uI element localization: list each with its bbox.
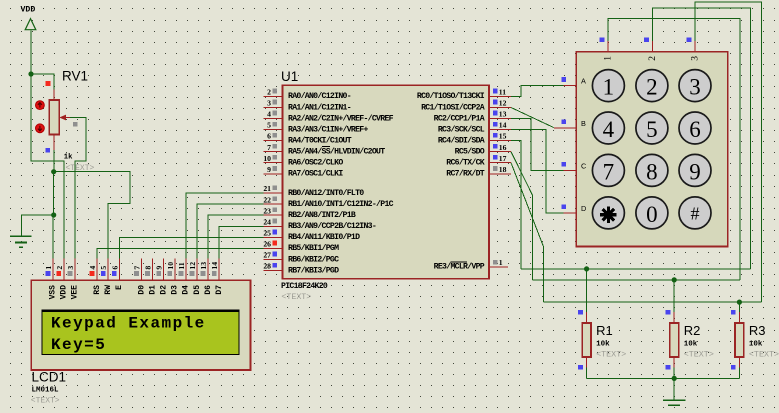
U1 pin 12 (RC1/T1OSI/CCP2A) [421, 99, 511, 113]
svg-text:VDD: VDD [60, 285, 69, 300]
svg-text:RC7/RX/DT: RC7/RX/DT [446, 169, 485, 179]
svg-text:D: D [581, 204, 586, 213]
svg-text:RB2/AN8/INT2/P1B: RB2/AN8/INT2/P1B [288, 210, 356, 220]
svg-text:26: 26 [263, 240, 271, 249]
svg-text:VDD: VDD [21, 6, 36, 15]
wire RB4 to LCD E [119, 237, 263, 258]
wire R2 top wire [673, 280, 675, 312]
junction node GND-R [672, 376, 677, 381]
svg-text:1: 1 [603, 75, 615, 100]
U1 pin 9 (RA7/OSC1/CLKI) [264, 165, 344, 179]
U1 pin 2 (RA0/AN0/C12IN0-) [264, 88, 351, 102]
ground symbol GND2 [663, 400, 685, 405]
svg-text:RE3/MCLR/VPP: RE3/MCLR/VPP [434, 262, 485, 272]
keypad column pin 1 [600, 37, 614, 60]
svg-text:1: 1 [44, 266, 53, 270]
svg-text:9: 9 [155, 266, 164, 270]
svg-text:<TEXT>: <TEXT> [66, 164, 95, 173]
svg-text:1k: 1k [64, 154, 73, 162]
svg-text:8: 8 [144, 266, 153, 270]
svg-text:22: 22 [263, 195, 271, 204]
svg-text:17: 17 [499, 154, 507, 163]
LCD1 pin 1 (VSS) [44, 259, 58, 300]
U1 pin 25 (RB4/AN11/KBI0/P1D) [263, 229, 360, 243]
wire RB1 to LCD D5 [197, 204, 264, 258]
svg-text:3: 3 [66, 266, 75, 270]
svg-text:RC4/SDI/SDA: RC4/SDI/SDA [438, 135, 485, 145]
LCD screen [42, 310, 239, 354]
U1 pin 13 (RC2/CCP1/P1A) [434, 110, 511, 124]
wire RC0 to keypad row A [511, 86, 563, 97]
svg-text:10k: 10k [596, 341, 610, 349]
wire ground node to ground symbol [22, 215, 54, 236]
overline SS on RA5 [322, 146, 330, 148]
svg-text:2: 2 [267, 88, 271, 97]
svg-text:RC2/CCP1/P1A: RC2/CCP1/P1A [434, 113, 485, 123]
LCD1 pin 3 (VEE) [66, 259, 80, 300]
wire R3 bottom wire [738, 367, 740, 378]
wire RC4 to pull-down bus 1 [511, 141, 521, 269]
wire RB0 to LCD D4 [186, 193, 264, 259]
junction node GND-A [51, 169, 56, 174]
wire RV1 wiper to LCD pin3 VEE [70, 118, 86, 259]
svg-text:10: 10 [166, 262, 175, 270]
svg-text:RV1: RV1 [62, 69, 88, 84]
svg-text:RW: RW [104, 285, 113, 295]
U1 pin 18 (RC7/RX/DT) [446, 165, 511, 179]
svg-text:RB3/AN9/CCP2B/C12IN3-: RB3/AN9/CCP2B/C12IN3- [288, 221, 376, 231]
svg-text:D2: D2 [160, 285, 169, 295]
svg-text:U1: U1 [281, 69, 298, 84]
wire keypad column 1 loop [608, 19, 740, 280]
svg-text:7: 7 [133, 266, 142, 270]
wire resistor common bus [587, 377, 740, 379]
RV1 increment button [36, 101, 45, 110]
LCD1 pin 13 (D6) [199, 259, 213, 295]
svg-text:RB1/AN10/INT1/C12IN2-/P1C: RB1/AN10/INT1/C12IN2-/P1C [288, 199, 394, 209]
U1 pin 3 (RA1/AN1/C12IN1-) [264, 99, 351, 113]
U1 pin 16 (RC5/SDO) [455, 143, 511, 157]
svg-text:9: 9 [689, 159, 701, 184]
svg-text:7: 7 [267, 143, 271, 152]
U1 pin 22 (RB1/AN10/INT1/C12IN2-/P1C) [263, 195, 393, 209]
LCD1 pin 9 (D2) [155, 259, 169, 295]
svg-text:LCD1: LCD1 [32, 370, 67, 385]
svg-text:2: 2 [648, 56, 658, 61]
svg-text:16: 16 [499, 143, 507, 152]
keypad button * [592, 197, 624, 229]
wire to ground symbol 2 [673, 378, 675, 400]
svg-text:4: 4 [88, 266, 97, 270]
svg-text:RS: RS [93, 285, 102, 295]
U1 pin 23 (RB2/AN8/INT2/P1B) [263, 206, 356, 220]
wire RC6 to pull-down bus 3 [511, 163, 544, 302]
svg-text:21: 21 [263, 184, 271, 193]
svg-text:12: 12 [499, 99, 507, 108]
U1 pin 15 (RC4/SDI/SDA) [438, 132, 511, 146]
svg-text:C: C [581, 161, 586, 170]
U1 pin 6 (RA4/T0CKI/C1OUT) [264, 132, 352, 146]
svg-text:23: 23 [263, 206, 271, 215]
LCD1 pin 11 (D4) [177, 259, 191, 295]
wire ground node to LCD pin1 VSS [52, 215, 55, 259]
junction node BUS2-R2 [672, 277, 677, 282]
keypad row pin C [561, 161, 586, 170]
svg-text:25: 25 [263, 229, 271, 238]
svg-text:5: 5 [99, 266, 108, 270]
svg-text:R2: R2 [684, 323, 701, 338]
svg-text:5: 5 [267, 121, 271, 130]
keypad column pin 2 [644, 37, 658, 60]
keypad button 2 [636, 70, 668, 102]
keypad row pin B [554, 119, 586, 128]
keypad button 0 [636, 197, 668, 229]
svg-text:4: 4 [267, 110, 271, 119]
LCD1 pin 14 (D7) [210, 259, 224, 295]
svg-text:8: 8 [646, 159, 658, 184]
svg-text:A: A [581, 77, 586, 86]
keypad button 5 [636, 112, 668, 144]
potentiometer RV1 [49, 90, 70, 151]
svg-text:13: 13 [499, 110, 507, 119]
svg-text:RA2/AN2/C2IN+/VREF-/CVREF: RA2/AN2/C2IN+/VREF-/CVREF [288, 113, 394, 123]
svg-text:1: 1 [604, 56, 614, 61]
svg-text:18: 18 [499, 165, 507, 174]
svg-text:Keypad Example: Keypad Example [51, 315, 206, 333]
svg-text:PIC18F24K20: PIC18F24K20 [281, 282, 328, 291]
U1 pin 11 (RC0/T1OSO/T13CKI) [417, 88, 511, 102]
wire VDD to LCD pin2 [31, 74, 64, 259]
LCD1 pin 12 (D5) [188, 259, 202, 295]
svg-text:<TEXT>: <TEXT> [281, 293, 311, 302]
LCD1 pin 8 (D1) [144, 259, 158, 295]
svg-text:#: # [691, 204, 700, 224]
U1 pin 21 (RB0/AN12/INT0/FLT0) [263, 184, 364, 198]
LCD1 pin 7 (D0) [133, 259, 147, 295]
junction node VDD-A [28, 71, 33, 76]
svg-text:15: 15 [499, 132, 507, 141]
svg-text:RB7/KBI3/PGD: RB7/KBI3/PGD [288, 265, 339, 275]
U1 pin 7 (RA5/AN4/SS/HLVDIN/C2OUT) [264, 143, 386, 157]
wire RB2 to LCD D6 [208, 215, 263, 258]
LCD1 pin 5 (RW) [99, 259, 113, 295]
svg-text:4: 4 [603, 117, 615, 142]
svg-text:R1: R1 [596, 323, 613, 338]
wire RB5 to LCD RS [97, 248, 263, 258]
svg-text:10k: 10k [749, 341, 763, 349]
wire keypad column 3 loop [695, 2, 762, 302]
svg-text:24: 24 [263, 217, 271, 226]
svg-text:<TEXT>: <TEXT> [749, 350, 779, 360]
svg-text:2: 2 [646, 75, 658, 100]
junction node BUS3-R3 [737, 300, 742, 305]
U1 pin 24 (RB3/AN9/CCP2B/C12IN3-) [263, 217, 376, 231]
ground symbol GND1 [10, 236, 32, 247]
svg-text:RA6/OSC2/CLKO: RA6/OSC2/CLKO [288, 158, 343, 168]
svg-text:E: E [115, 285, 124, 290]
svg-text:RA5/AN4/SS/HLVDIN/C2OUT: RA5/AN4/SS/HLVDIN/C2OUT [288, 147, 385, 157]
wire keypad column 2 loop [653, 8, 751, 269]
wire RC3 to keypad row D [511, 130, 563, 213]
svg-text:RA1/AN1/C12IN1-: RA1/AN1/C12IN1- [288, 102, 351, 112]
U1 pin 1 (RE3/MCLR/VPP) [434, 258, 508, 272]
wire pull-down bus 2 [533, 279, 740, 281]
U1 pin 28 (RB7/KBI3/PGD) [263, 262, 339, 276]
wire pull-down bus 3 [544, 301, 762, 303]
wire VDD to RV1 top [31, 74, 54, 90]
svg-text:Key=5: Key=5 [51, 336, 106, 354]
wire RB3 to LCD D7 [219, 226, 263, 258]
svg-text:14: 14 [499, 121, 507, 130]
wire RC2 to keypad row C [511, 119, 563, 171]
svg-text:12: 12 [188, 262, 197, 270]
LCD1 pin 2 (VDD) [55, 259, 69, 300]
svg-text:RA7/OSC1/CLKI: RA7/OSC1/CLKI [288, 169, 343, 179]
svg-text:11: 11 [499, 88, 506, 97]
keypad button 9 [679, 154, 711, 186]
svg-text:B: B [581, 119, 586, 128]
svg-text:7: 7 [603, 159, 615, 184]
U1 pin 14 (RC3/SCK/SCL) [438, 121, 511, 135]
svg-text:RA4/T0CKI/C1OUT: RA4/T0CKI/C1OUT [288, 135, 352, 145]
LCD1 pin 10 (D3) [166, 259, 180, 295]
svg-text:2: 2 [55, 266, 64, 270]
svg-text:R3: R3 [749, 323, 766, 338]
svg-text:13: 13 [199, 262, 208, 270]
keypad button 8 [636, 154, 668, 186]
svg-text:RB5/KBI1/PGM: RB5/KBI1/PGM [288, 243, 339, 253]
svg-text:D3: D3 [171, 285, 180, 295]
wire R1 top wire [586, 269, 588, 312]
wire RV1 bottom to ground node [53, 150, 55, 172]
svg-text:RB6/KBI2/PGC: RB6/KBI2/PGC [288, 254, 339, 264]
LCD display LCD1 body [31, 280, 250, 370]
svg-text:D6: D6 [204, 285, 213, 295]
LCD1 pin 4 (RS) [88, 259, 102, 295]
keypad button 6 [679, 112, 711, 144]
svg-text:D7: D7 [215, 285, 224, 295]
svg-text:D1: D1 [148, 285, 157, 295]
svg-text:D5: D5 [193, 285, 202, 295]
svg-text:14: 14 [210, 262, 219, 270]
resistor R2 [666, 310, 679, 370]
U1 pin 17 (RC6/TX/CK) [446, 154, 511, 168]
svg-text:RC6/TX/CK: RC6/TX/CK [446, 158, 485, 168]
svg-text:LM016L: LM016L [32, 387, 60, 395]
svg-text:RC1/T1OSI/CCP2A: RC1/T1OSI/CCP2A [421, 102, 485, 112]
keypad row pin D [561, 204, 586, 213]
svg-text:VEE: VEE [71, 285, 80, 300]
op-amp U1 body (PIC18F24K20 microcontroller) [283, 85, 490, 279]
keypad button 4 [592, 112, 624, 144]
RV1 pin state squares [45, 81, 77, 153]
svg-text:11: 11 [177, 262, 186, 269]
U1 pin 27 (RB6/KBI2/PGC) [263, 251, 339, 265]
RV1 decrement button [36, 124, 45, 133]
svg-text:1: 1 [499, 258, 503, 267]
keypad column pin 3 [687, 37, 701, 60]
keypad button 1 [592, 70, 624, 102]
svg-text:RC3/SCK/SCL: RC3/SCK/SCL [438, 124, 485, 134]
svg-text:3: 3 [690, 56, 700, 61]
keypad row pin A [561, 77, 586, 86]
svg-text:<TEXT>: <TEXT> [31, 397, 60, 406]
svg-text:D4: D4 [182, 285, 191, 295]
wire RC1 to keypad row B [511, 108, 554, 128]
junction node BUS1-R1 [584, 266, 589, 271]
svg-text:VSS: VSS [49, 285, 58, 300]
wire VDD stem [30, 31, 32, 75]
svg-text:10: 10 [263, 154, 271, 163]
wire R3 top wire [738, 302, 740, 312]
U1 pin 26 (RB5/KBI1/PGM) [263, 240, 339, 254]
svg-text:6: 6 [110, 266, 119, 270]
svg-text:RA0/AN0/C12IN0-: RA0/AN0/C12IN0- [288, 91, 351, 101]
svg-text:RB0/AN12/INT0/FLT0: RB0/AN12/INT0/FLT0 [288, 188, 364, 198]
U1 pin 5 (RA3/AN3/C1IN+/VREF+) [264, 121, 369, 135]
svg-text:27: 27 [263, 251, 271, 260]
svg-text:RB4/AN11/KBI0/P1D: RB4/AN11/KBI0/P1D [288, 232, 360, 242]
svg-text:10k: 10k [684, 341, 698, 349]
svg-text:<TEXT>: <TEXT> [596, 350, 626, 360]
svg-text:RA3/AN3/C1IN+/VREF+: RA3/AN3/C1IN+/VREF+ [288, 124, 368, 134]
U1 pin 10 (RA6/OSC2/CLKO) [263, 154, 343, 168]
svg-text:0: 0 [646, 202, 658, 227]
keypad button 3 [679, 70, 711, 102]
U1 pin 4 (RA2/AN2/C2IN+/VREF-/CVREF) [264, 110, 394, 124]
svg-text:5: 5 [646, 117, 658, 142]
wire ground node down [53, 172, 55, 215]
svg-text:3: 3 [689, 75, 701, 100]
resistor R3 [731, 310, 744, 370]
junction node GND-B [51, 212, 56, 217]
resistor R1 [578, 310, 591, 370]
keypad button # [679, 197, 711, 229]
keypad button 7 [592, 154, 624, 186]
power VDD [21, 6, 36, 30]
svg-text:<TEXT>: <TEXT> [684, 350, 714, 360]
svg-text:3: 3 [267, 99, 271, 108]
svg-text:RC5/SDO: RC5/SDO [455, 147, 485, 157]
wire ground to LCD pin5 RW [54, 172, 130, 259]
svg-text:D0: D0 [137, 285, 146, 295]
wire pull-down bus 1 [521, 268, 750, 270]
keypad KEYPAD-SMALLCALC body [576, 52, 728, 247]
svg-text:6: 6 [689, 117, 701, 142]
svg-text:9: 9 [267, 165, 271, 174]
svg-text:6: 6 [267, 132, 271, 141]
wire R1 bottom wire [586, 367, 588, 378]
svg-text:28: 28 [263, 262, 271, 271]
wire R2 bottom wire [673, 367, 675, 378]
LCD1 pin 6 (E) [110, 259, 124, 290]
wire RC5 to pull-down bus 2 [511, 152, 533, 280]
svg-text:RC0/T1OSO/T13CKI: RC0/T1OSO/T13CKI [417, 91, 485, 101]
